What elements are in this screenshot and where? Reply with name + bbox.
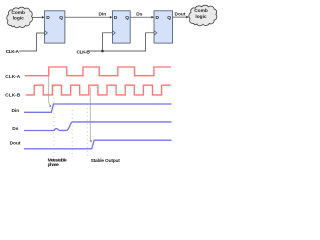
svg-text:D: D [156, 15, 160, 21]
svg-text:Q: Q [125, 15, 129, 21]
svg-text:D: D [46, 15, 50, 21]
svg-text:Din: Din [12, 108, 20, 114]
svg-text:Comb: Comb [11, 10, 25, 16]
svg-text:Dout: Dout [175, 11, 186, 17]
svg-text:D: D [114, 15, 118, 21]
svg-text:Dout: Dout [10, 141, 21, 147]
svg-text:Ds: Ds [12, 126, 18, 132]
svg-text:Ds: Ds [136, 11, 142, 17]
svg-text:CLK-B: CLK-B [5, 92, 20, 98]
svg-text:Stable Output: Stable Output [91, 158, 121, 164]
svg-text:logic: logic [195, 14, 207, 20]
svg-text:Q: Q [59, 15, 63, 21]
svg-text:CLK-A: CLK-A [6, 49, 20, 55]
svg-text:CLK-A: CLK-A [5, 74, 20, 80]
svg-text:phase: phase [48, 162, 60, 168]
svg-text:logic: logic [13, 15, 25, 21]
svg-text:CLK-B: CLK-B [77, 50, 91, 56]
svg-text:Din: Din [99, 11, 107, 17]
svg-text:Comb: Comb [194, 8, 208, 14]
svg-text:Q: Q [167, 15, 171, 21]
